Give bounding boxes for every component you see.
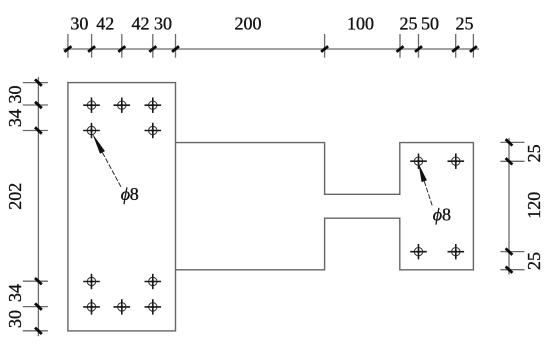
- left end plate outline: [68, 83, 176, 331]
- top dimension label 30: [70, 13, 88, 33]
- svg-text:25: 25: [524, 144, 544, 162]
- label phi-8 (left plate hole diameter): [121, 184, 139, 204]
- svg-text:25: 25: [524, 252, 544, 270]
- leader arrowhead to hole B1: [92, 134, 105, 154]
- svg-text:120: 120: [524, 192, 544, 219]
- svg-text:30: 30: [154, 13, 172, 33]
- top dimension extension lines: [68, 34, 474, 58]
- left dimension label 30 (bottom): [5, 310, 25, 328]
- hole B1 (left plate row 2 col 1): [83, 123, 100, 138]
- svg-text:30: 30: [5, 86, 25, 104]
- svg-text:25: 25: [456, 13, 474, 33]
- leader line to hole E1: [424, 181, 432, 207]
- top dimension label 42 (second): [132, 13, 150, 33]
- top dimension label 200: [235, 13, 262, 33]
- left dimension tick marks: [35, 79, 42, 334]
- hole D1 (left plate row 4 col 1): [83, 299, 100, 314]
- top dimension tick marks: [64, 46, 477, 52]
- left dimension label 202: [5, 183, 25, 210]
- right dimension label 25 (bottom): [524, 252, 544, 270]
- hole D3 (left plate row 4 col 3): [145, 299, 162, 314]
- top dimension label 50: [421, 13, 439, 33]
- svg-text:30: 30: [70, 13, 88, 33]
- left dimension line: [37, 77, 39, 336]
- top dimension line: [63, 48, 479, 50]
- right dimension label 25 (top): [524, 144, 544, 162]
- top dimension label 25 (second): [456, 13, 474, 33]
- svg-text:25: 25: [400, 13, 418, 33]
- hole A2 (left plate row 1 col 2): [114, 98, 131, 113]
- hole E1 (right plate top left): [410, 154, 427, 169]
- svg-text:202: 202: [5, 183, 25, 210]
- top dimension label 100: [347, 13, 374, 33]
- svg-text:100: 100: [347, 13, 374, 33]
- hole F2 (right plate bottom right): [448, 244, 465, 259]
- right dimension line: [508, 138, 510, 275]
- hole A1 (left plate row 1 col 1): [83, 98, 100, 113]
- leader arrowhead to hole E1: [418, 163, 427, 182]
- hole B3 (left plate row 2 col 3): [145, 123, 162, 138]
- top dimension label 42: [96, 13, 114, 33]
- hole C1 (left plate row 3 col 1): [83, 274, 100, 289]
- hole D2 (left plate row 4 col 2): [114, 299, 131, 314]
- top dimension label 30 (second): [154, 13, 172, 33]
- label phi-8 (right plate hole diameter): [433, 205, 451, 225]
- svg-text:34: 34: [5, 109, 25, 127]
- top dimension label 25: [400, 13, 418, 33]
- hole A3 (left plate row 1 col 3): [145, 98, 162, 113]
- left dimension label 34 (bottom): [5, 284, 25, 302]
- svg-text:34: 34: [5, 284, 25, 302]
- leader line to hole B1: [102, 153, 121, 188]
- hole F1 (right plate bottom left): [410, 244, 427, 259]
- svg-text:200: 200: [235, 13, 262, 33]
- svg-text:42: 42: [96, 13, 114, 33]
- right dimension extension lines: [500, 142, 524, 269]
- left dimension label 30 (top): [5, 86, 25, 104]
- svg-text:ϕ: ϕ: [433, 205, 442, 225]
- left dimension extension lines: [23, 83, 48, 331]
- hole E2 (right plate top right): [448, 154, 465, 169]
- hole C3 (left plate row 3 col 3): [145, 274, 162, 289]
- specimen body outline (middle bar, reduced neck, right end plate): [176, 143, 474, 270]
- left dimension label 34 (top): [5, 109, 25, 127]
- svg-text:42: 42: [132, 13, 150, 33]
- svg-text:8: 8: [130, 184, 139, 204]
- right dimension tick marks: [506, 139, 513, 273]
- right dimension label 120: [524, 192, 544, 219]
- svg-text:8: 8: [442, 205, 451, 225]
- svg-text:50: 50: [421, 13, 439, 33]
- svg-text:30: 30: [5, 310, 25, 328]
